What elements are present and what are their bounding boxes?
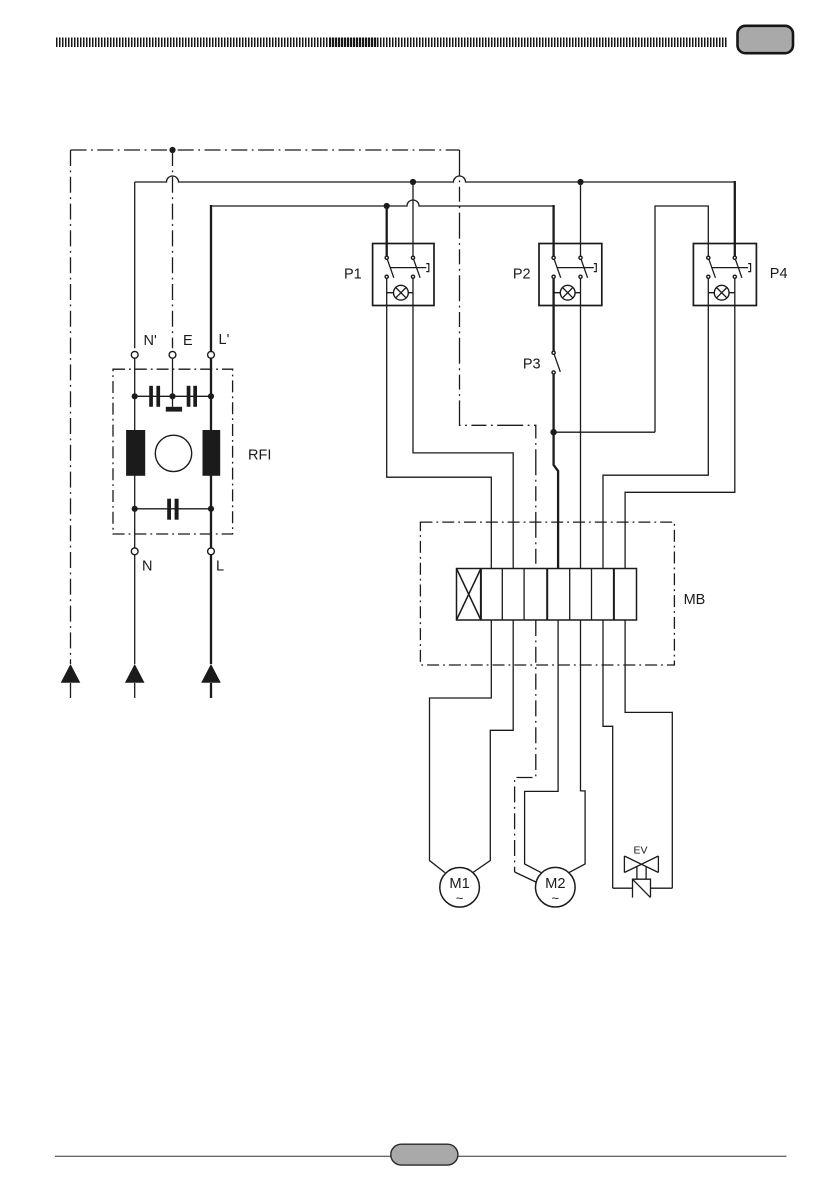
- wire: N to arrow: [134, 555, 136, 664]
- terminal E: [169, 351, 176, 358]
- svg-text:~: ~: [456, 891, 464, 906]
- MB dash-dot box: [420, 522, 674, 665]
- ground bar: [166, 407, 182, 412]
- wire: P1 left feed (bold): [386, 205, 388, 256]
- wire: left earth drop (dash-dot): [70, 150, 72, 664]
- svg-text:P3: P3: [523, 357, 541, 373]
- wire: P3 junction branch to riser: [554, 431, 655, 433]
- terminal block X cell: [457, 569, 481, 621]
- svg-text:~: ~: [552, 891, 560, 906]
- switch P1 box: [373, 244, 434, 306]
- P2 linkage bar: [557, 264, 596, 272]
- wire: P1 right feed: [412, 182, 414, 256]
- wire: N inside filter: [134, 358, 136, 548]
- svg-text:L': L': [219, 332, 230, 348]
- wire: P2 right feed: [580, 182, 582, 256]
- lamp P2: [560, 285, 575, 300]
- wire: L inside filter (bold): [210, 358, 212, 548]
- terminal L: [208, 548, 215, 555]
- svg-text:N': N': [144, 333, 157, 349]
- wire: MB to EV right: [625, 620, 672, 888]
- P4 contacts: [707, 256, 710, 259]
- P1 switch blades: [387, 259, 420, 278]
- wire: left earth stub below arrow: [70, 683, 72, 698]
- inductor left: [126, 430, 145, 476]
- wire: L stub below arrow (bold): [210, 683, 212, 698]
- wire: N stub below arrow: [134, 683, 136, 698]
- valve EV stem: [637, 866, 646, 879]
- wire: P2 right straight to MB: [580, 279, 582, 569]
- switch P3: [552, 351, 555, 354]
- wire: P2 left feed (bold): [552, 205, 554, 256]
- wire: P2 left down to P3 (bold): [552, 279, 554, 351]
- wire: earth rail (dash-dot, top): [71, 149, 460, 151]
- wire: L' drop (bold): [210, 205, 212, 351]
- capacitor C3 plates: [167, 499, 171, 520]
- svg-text:EV: EV: [633, 845, 647, 857]
- arrow earth: [61, 664, 81, 683]
- wire: filter bottom capacitor row: [135, 508, 211, 510]
- header button: [738, 26, 794, 53]
- P1 contacts: [385, 256, 388, 259]
- wire: N' drop: [134, 182, 136, 348]
- wire: P1 right to MB: [413, 279, 513, 569]
- node: junction P2 right: [577, 179, 583, 185]
- wire: E drop (dash-dot): [172, 150, 174, 348]
- arrow N: [125, 664, 145, 683]
- lamp P4: [714, 285, 729, 300]
- svg-text:L: L: [216, 559, 224, 575]
- lamp P1: [394, 285, 409, 300]
- svg-text:P2: P2: [513, 267, 531, 283]
- terminal N: [131, 548, 138, 555]
- wire: line rail with hop: [211, 200, 554, 206]
- svg-text:N: N: [142, 559, 152, 575]
- wire: main earth run (dash-dot) to MB: [460, 150, 536, 571]
- capacitor C2 plates: [187, 386, 191, 407]
- svg-text:E: E: [183, 333, 193, 349]
- terminal block dividers: [480, 569, 482, 621]
- motor M2: [536, 867, 576, 907]
- valve EV bowtie: [624, 856, 658, 873]
- wire: MB to M2 right: [569, 620, 585, 873]
- wire: P4 right feed (bold): [734, 181, 736, 256]
- terminal block MB: [457, 569, 637, 621]
- wire: P3 down to MB (bold, jog): [554, 374, 559, 568]
- wire: MB to M2 left: [525, 620, 559, 873]
- footer pill: [391, 1144, 458, 1165]
- wire: P4 left to MB: [603, 279, 708, 569]
- wire: L to arrow (bold): [210, 555, 212, 664]
- capacitor C1 plates: [149, 386, 153, 407]
- wire: earth slant into M2: [515, 872, 537, 883]
- P4 linkage bar: [712, 264, 751, 272]
- P2 contacts: [552, 256, 555, 259]
- valve EV actuator: [633, 879, 651, 897]
- wire: P4 right to MB: [625, 279, 735, 569]
- node dots filter bottom row: [132, 506, 138, 512]
- RFI filter box: [113, 369, 233, 534]
- svg-text:MB: MB: [684, 592, 706, 608]
- arrow L: [201, 664, 221, 683]
- svg-text:RFI: RFI: [248, 448, 271, 464]
- P4 switch blades: [709, 259, 742, 278]
- footer rule: [55, 1155, 787, 1157]
- node: junction P1 right: [410, 179, 416, 185]
- motor M1: [440, 868, 480, 908]
- wire: E stub into filter: [172, 358, 174, 407]
- node dots filter top row: [132, 393, 138, 399]
- svg-text:P4: P4: [770, 266, 788, 282]
- wire: neutral rail with hops: [135, 176, 735, 182]
- wire: filter top capacitor row: [135, 395, 211, 397]
- node: P3 junction: [550, 429, 556, 435]
- inductor right: [203, 430, 221, 476]
- wire: earth below MB (dash-dot): [515, 620, 536, 872]
- P2 switch blades: [554, 259, 587, 278]
- wire: MB to M1 left: [430, 620, 492, 873]
- wire: EV bottom: [613, 887, 673, 889]
- node: earth tap junction: [169, 147, 175, 153]
- wire: MB to M1 right: [473, 620, 514, 873]
- terminal L': [208, 351, 215, 358]
- node: junction P1 left: [384, 203, 390, 209]
- switch P2 box: [539, 244, 602, 306]
- wire: riser P3 to P4: [655, 206, 708, 432]
- terminal N': [131, 351, 138, 358]
- header tick rule: [56, 38, 728, 47]
- switch P4 box: [693, 244, 756, 306]
- wire: P1 left to MB: [387, 279, 492, 569]
- wire: MB to EV left: [603, 620, 613, 888]
- svg-text:P1: P1: [344, 267, 362, 283]
- filter core circle: [155, 435, 191, 471]
- P1 linkage bar: [391, 264, 429, 272]
